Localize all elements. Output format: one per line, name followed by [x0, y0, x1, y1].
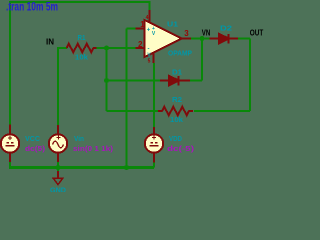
wire V- link: [153, 63, 155, 127]
wire R1 to pin2: [96, 47, 136, 49]
svg-text:1: 1: [140, 20, 145, 29]
wire IN drop to Vin: [57, 47, 59, 125]
svg-text:Vin: Vin: [74, 134, 84, 143]
svg-text:OPAMP: OPAMP: [168, 51, 192, 58]
svg-text:5: 5: [148, 59, 151, 65]
wire left rail VCC top: [9, 1, 11, 125]
svg-text:D1: D1: [172, 68, 182, 77]
svg-text:sin(0 1 1k): sin(0 1 1k): [73, 144, 114, 153]
wire feedback left vertical: [106, 48, 108, 111]
svg-text:dc(-5): dc(-5): [167, 144, 195, 153]
wire noninverting horizontal: [127, 28, 136, 30]
pin V-: [153, 52, 155, 63]
pin V+: [149, 10, 151, 22]
wire top rail V+: [10, 1, 150, 3]
wire noninverting vertical to rail: [126, 29, 128, 168]
junction D1 branch: [104, 78, 109, 83]
ground: [53, 171, 63, 185]
svg-text:+: +: [147, 28, 151, 34]
wire D2 to OUT corner: [238, 38, 251, 40]
wire IN to R1: [58, 47, 67, 49]
svg-text:2: 2: [138, 40, 143, 49]
svg-text:VCC: VCC: [25, 134, 41, 143]
svg-text:GND: GND: [50, 185, 67, 192]
wire bottom rail: [9, 166, 154, 169]
svg-text:R1: R1: [78, 33, 86, 42]
source VCC dc(5): [1, 125, 19, 163]
svg-text:10k: 10k: [75, 53, 89, 62]
diode D1: [160, 76, 190, 86]
svg-text:OUT: OUT: [250, 29, 264, 38]
wire ground stub: [57, 168, 59, 172]
junction node VN: [200, 36, 205, 41]
svg-text:3: 3: [184, 29, 189, 38]
wire R2 branch right: [194, 110, 250, 112]
svg-text:D2: D2: [220, 24, 232, 33]
wire S3 bottom link: [153, 163, 155, 168]
source VDD dc(-5): [145, 127, 163, 163]
junction Vin at rail: [56, 165, 61, 170]
resistor R1: [67, 44, 97, 52]
wire R2 branch left: [107, 110, 160, 112]
svg-text:R2: R2: [172, 95, 182, 104]
diode D2: [210, 34, 239, 44]
junction inverting node: [104, 46, 109, 51]
junction noninverting at rail: [124, 165, 129, 170]
pin 3 output: [180, 38, 191, 40]
wire OUT drop: [249, 39, 251, 112]
pin 1 noninverting input: [136, 28, 145, 30]
svg-text:4: 4: [146, 15, 149, 21]
wire D1 branch left: [107, 80, 162, 82]
wire D1 branch right: [189, 80, 202, 82]
source Vin sin: [49, 125, 67, 162]
svg-text:10k: 10k: [170, 115, 184, 124]
wire opamp output to D2: [191, 38, 210, 40]
svg-text:VN: VN: [202, 29, 211, 38]
svg-text:IN: IN: [46, 38, 54, 47]
wire V+ drop: [149, 1, 151, 10]
svg-text:VDD: VDD: [169, 134, 182, 143]
svg-text:U1: U1: [167, 20, 178, 29]
wire Vin bottom: [57, 162, 59, 168]
resistor R2: [158, 107, 193, 115]
pin 2 inverting input: [136, 47, 145, 49]
wire VCC bottom: [9, 162, 11, 168]
op-amp U1: [136, 10, 192, 65]
wire feedback right vertical: [201, 39, 203, 81]
svg-text:.tran 10m 5m: .tran 10m 5m: [6, 2, 58, 14]
svg-text:dc(5): dc(5): [25, 144, 46, 153]
